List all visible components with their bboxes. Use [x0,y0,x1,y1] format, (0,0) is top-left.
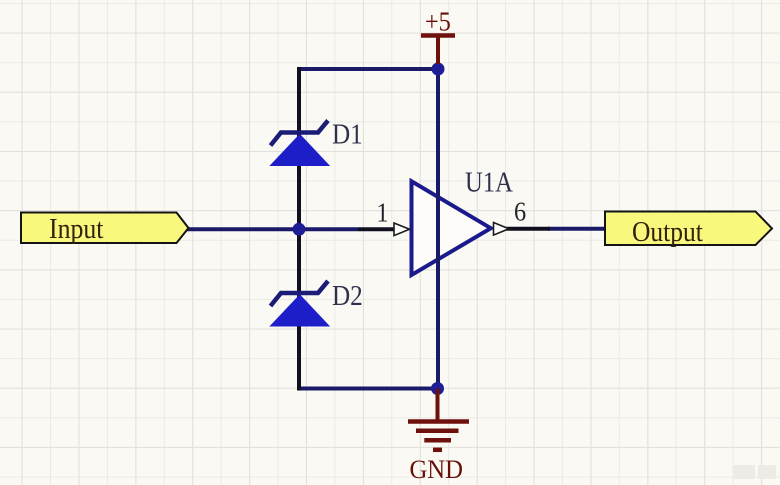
wire bottom bus from D2 branch to GND branch [299,387,438,391]
svg-text:Input: Input [49,213,104,245]
wire input from port to node A [186,227,358,231]
junction node bottom (GND bus) [431,382,444,395]
pin 1 lead of U1A [358,223,410,236]
svg-text:D1: D1 [332,118,363,150]
watermark bottom right [733,465,776,479]
svg-text:Output: Output [632,216,703,248]
svg-text:D2: D2 [332,280,363,312]
wire top bus from D1 branch to V+ branch [299,67,438,71]
wire left vertical branch through D1 and D2 [297,67,301,391]
op-amp U1A body [412,181,491,275]
ground symbol GND [408,389,469,450]
junction node A (input / diodes) [293,223,306,236]
svg-text:GND: GND [409,455,462,484]
diode D1 (zener) [271,121,330,166]
diode D2 (zener) [271,281,330,326]
junction node top (+5 bus) [432,63,445,76]
power symbol +5 [421,6,455,64]
port Input [21,213,189,245]
svg-text:6: 6 [514,196,526,226]
svg-text:1: 1 [376,197,388,227]
svg-text:U1A: U1A [465,167,513,198]
port Output [605,212,772,248]
wire output from U1A to output port [548,227,606,231]
svg-text:+5: +5 [425,6,451,36]
wire right vertical branch from +5 node to GND node (crosses U1A) [436,67,440,391]
pin 6 lead of U1A [494,223,551,236]
